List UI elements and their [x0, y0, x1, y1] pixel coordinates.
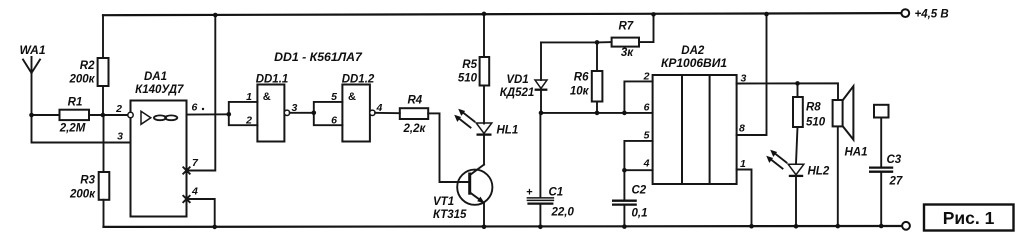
svg-text:R5: R5 [462, 59, 477, 71]
svg-text:R6: R6 [574, 72, 589, 84]
svg-text:3: 3 [741, 73, 747, 85]
LED HL2 [766, 150, 804, 227]
svg-text:VD1: VD1 [506, 74, 528, 86]
svg-text:8: 8 [739, 123, 745, 135]
wire DA1 pin6 to DD1.1 inputs [187, 113, 229, 115]
speaker HA1 [833, 86, 854, 226]
wire top supply rail [103, 13, 901, 15]
svg-text:2: 2 [245, 115, 252, 127]
svg-text:&: & [263, 91, 271, 103]
svg-text:HL2: HL2 [808, 166, 830, 178]
svg-text:510: 510 [806, 117, 826, 129]
resistor R7 [597, 14, 654, 46]
svg-text:27: 27 [889, 176, 903, 188]
LED HL1 [454, 109, 492, 165]
svg-text:4: 4 [191, 186, 198, 198]
timer DA2 [653, 75, 737, 184]
svg-text:2: 2 [115, 103, 122, 115]
svg-text:4: 4 [643, 158, 650, 170]
wire DA2 pin3 output [737, 83, 838, 100]
svg-text:DD1.1: DD1.1 [256, 74, 289, 86]
svg-text:WA1: WA1 [20, 43, 46, 57]
wire pin4 to ground rail [187, 199, 215, 227]
svg-text:К140УД7: К140УД7 [135, 84, 184, 96]
wire DA2 pin4 [624, 170, 652, 199]
capacitor C1 [526, 113, 553, 227]
svg-text:DD1 - К561ЛА7: DD1 - К561ЛА7 [274, 50, 363, 64]
capacitor C2 [612, 201, 637, 227]
op-amp DA1 [131, 101, 187, 217]
svg-text:DA1: DA1 [144, 71, 167, 83]
resistor R2 [98, 15, 109, 115]
wire DA2 pin5 [624, 141, 652, 170]
svg-text:КД521: КД521 [500, 87, 535, 99]
wire VT1 emitter to ground [483, 203, 485, 227]
terminal +4,5 V [901, 9, 909, 17]
diode VD1 [535, 42, 548, 113]
svg-text:6: 6 [192, 102, 198, 114]
svg-text:2,2М: 2,2М [59, 123, 86, 135]
resistor R8 [793, 83, 803, 163]
wire DA2 pin8 to +rail [737, 14, 767, 135]
svg-text:&: & [348, 91, 356, 103]
svg-text:3: 3 [292, 102, 298, 114]
svg-text:КТ315: КТ315 [433, 209, 467, 221]
svg-text:R8: R8 [806, 102, 821, 114]
svg-text:7: 7 [192, 157, 199, 169]
svg-text:C3: C3 [887, 154, 902, 166]
resistor R1 [32, 110, 128, 120]
resistor R6 [592, 42, 603, 113]
figure label box [924, 205, 1014, 231]
svg-text:C2: C2 [632, 185, 647, 197]
svg-text:2: 2 [643, 71, 650, 83]
svg-text:3: 3 [117, 131, 123, 143]
svg-text:22,0: 22,0 [551, 207, 575, 219]
svg-text:HA1: HA1 [845, 147, 868, 159]
wire node R7/R6/VD1 [541, 41, 597, 43]
pin 4 cross mark [183, 196, 189, 202]
svg-text:R2: R2 [80, 60, 95, 72]
svg-text:КР1006ВИ1: КР1006ВИ1 [661, 56, 727, 70]
svg-text:200к: 200к [68, 74, 95, 86]
gate DD1.2 [314, 85, 375, 142]
svg-text:R4: R4 [407, 95, 422, 107]
pin 2 inverting circle [128, 112, 133, 117]
terminal bottom [902, 222, 910, 230]
svg-text:6: 6 [644, 102, 650, 114]
svg-text:Рис. 1: Рис. 1 [943, 208, 995, 228]
wire DD1.1 out to DD1.2 in [290, 112, 314, 114]
svg-text:DD1.2: DD1.2 [342, 74, 375, 86]
svg-text:1: 1 [246, 91, 252, 103]
wire R4 to VT1 base [440, 113, 469, 182]
svg-text:+4,5 В: +4,5 В [915, 8, 949, 20]
svg-text:R3: R3 [80, 175, 95, 187]
svg-text:R1: R1 [68, 97, 83, 109]
wire DA2 pin1 to ground [737, 170, 752, 227]
svg-text:5: 5 [644, 130, 650, 142]
svg-text:VT1: VT1 [433, 196, 454, 208]
svg-text:6: 6 [331, 115, 337, 127]
gate DD1.1 [229, 85, 290, 142]
svg-text:+: + [526, 187, 532, 199]
resistor R3 [99, 115, 110, 227]
wire pin7 to +rail [187, 15, 216, 170]
capacitor C3 [869, 118, 893, 227]
svg-text:2,2к: 2,2к [402, 123, 426, 135]
pin 7 cross mark [183, 167, 189, 173]
svg-text:1: 1 [740, 158, 746, 170]
svg-text:5: 5 [331, 91, 337, 103]
wire node VD1/R6/C1 to DA2 pin6 [541, 112, 653, 114]
resistor R4 [375, 108, 439, 119]
svg-text:10к: 10к [570, 86, 590, 98]
svg-text:3к: 3к [621, 47, 634, 59]
wire antenna node down to pin3 [32, 115, 131, 143]
svg-text:HL1: HL1 [497, 125, 519, 137]
antenna WA1 [23, 57, 40, 115]
svg-text:200к: 200к [69, 189, 96, 201]
wire DA2 pin2 [624, 81, 652, 113]
svg-text:C1: C1 [549, 187, 564, 199]
svg-text:0,1: 0,1 [632, 208, 648, 220]
sensor plate square [874, 105, 889, 118]
transistor VT1 [457, 165, 492, 205]
wire bottom ground rail [104, 225, 903, 228]
resistor R5 [480, 14, 490, 124]
svg-text:510: 510 [458, 73, 478, 85]
svg-text:R7: R7 [618, 21, 633, 33]
